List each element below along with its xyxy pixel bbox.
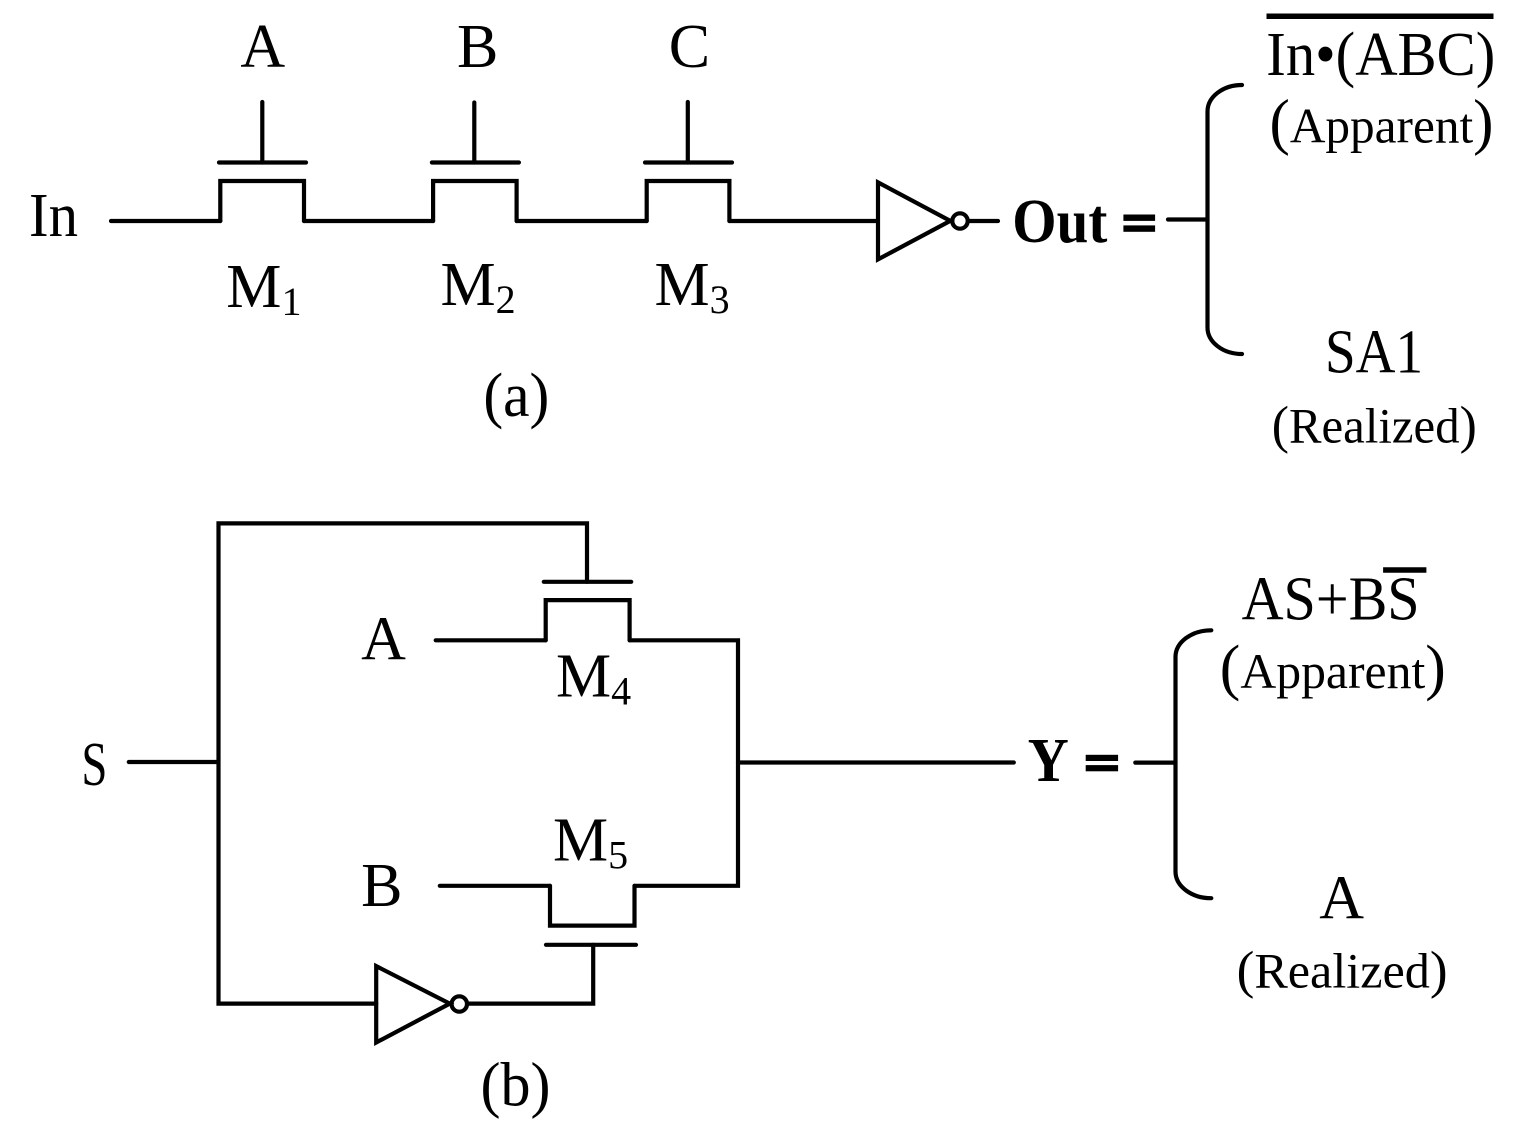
transistor M1 channel	[220, 181, 304, 221]
brace (b)	[1176, 630, 1212, 898]
transistor M1 gate	[219, 102, 306, 163]
svg-text:(Apparent): (Apparent)	[1270, 89, 1494, 157]
svg-text:M2: M2	[441, 251, 516, 322]
overline of In.(ABC)	[1267, 14, 1494, 20]
transistor M5 channel	[550, 886, 635, 926]
wire M2 drain to M3 source	[517, 219, 647, 223]
transistor M3 channel	[647, 181, 730, 221]
svg-text:S: S	[81, 731, 107, 799]
inverter U2	[376, 966, 467, 1042]
transistor M5 gate	[546, 943, 636, 947]
overline over S in AS+BS	[1383, 567, 1426, 573]
leader tick to brace (b)	[1135, 760, 1175, 764]
wire inverter U1 to Out	[970, 219, 998, 223]
wire inverter U2 to M5 gate	[469, 945, 594, 1004]
svg-text:(Realized): (Realized)	[1272, 397, 1477, 455]
svg-text:B: B	[457, 13, 498, 81]
svg-text:Y: Y	[1028, 727, 1069, 795]
svg-text:(b): (b)	[481, 1052, 551, 1120]
svg-text:(Apparent): (Apparent)	[1220, 634, 1446, 702]
equals sign (a)	[1123, 215, 1155, 232]
svg-text:B: B	[361, 852, 402, 920]
transistor M2 gate	[432, 103, 519, 163]
wire In to M1 source	[111, 219, 220, 223]
svg-text:A: A	[240, 13, 285, 81]
wire M4 drain to output node to M5 drain	[630, 640, 738, 886]
svg-text:M3: M3	[655, 251, 730, 322]
svg-text:Out: Out	[1012, 188, 1107, 256]
transistor M4 gate bar	[544, 580, 631, 584]
wire output node to Y	[738, 760, 1014, 764]
transistor M2 channel	[433, 181, 516, 221]
wire M1 drain to M2 source	[304, 219, 433, 223]
wire B to M5 source	[440, 884, 550, 888]
svg-text:C: C	[669, 13, 710, 81]
wire S to bus junction	[129, 760, 219, 764]
svg-text:M4: M4	[556, 642, 631, 713]
inverter U1	[878, 182, 968, 259]
svg-text:SA1: SA1	[1325, 319, 1423, 387]
wire S bus: inverter to top rail to M4 gate	[219, 523, 588, 1003]
svg-text:(Realized): (Realized)	[1237, 942, 1448, 1000]
svg-text:A: A	[361, 606, 406, 674]
svg-text:In: In	[29, 182, 78, 250]
svg-text:M1: M1	[226, 253, 301, 324]
wire A to M4 source	[436, 638, 546, 642]
svg-text:(a): (a)	[483, 362, 549, 430]
svg-text:In•(ABC): In•(ABC)	[1266, 21, 1495, 89]
svg-text:A: A	[1319, 864, 1364, 932]
svg-text:AS+BS: AS+BS	[1242, 566, 1420, 634]
transistor M4 channel	[546, 600, 630, 640]
transistor M3 gate	[645, 102, 732, 163]
brace (a)	[1208, 85, 1243, 354]
equals sign (b)	[1086, 755, 1118, 772]
leader tick to brace (a)	[1168, 217, 1208, 221]
svg-text:M5: M5	[553, 807, 628, 878]
wire M3 drain to inverter U1	[729, 219, 878, 223]
